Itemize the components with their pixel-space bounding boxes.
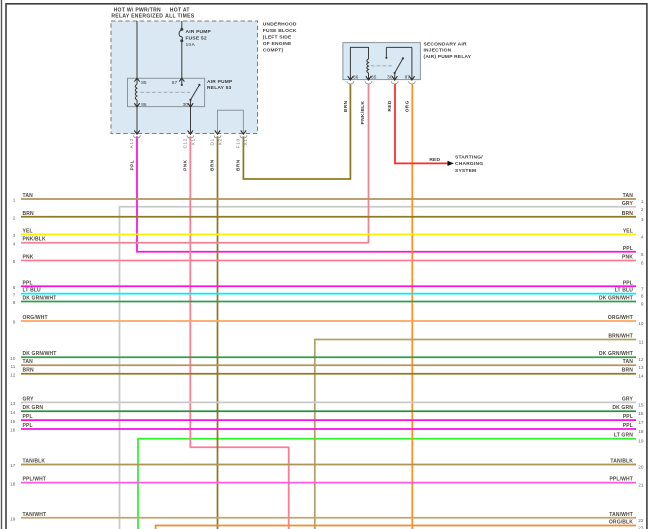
- svg-text:DK GRN: DK GRN: [612, 405, 633, 411]
- svg-text:11: 11: [639, 340, 644, 345]
- svg-text:GRY: GRY: [622, 201, 634, 207]
- svg-text:BRN: BRN: [343, 100, 348, 112]
- svg-text:F10: F10: [236, 138, 241, 148]
- svg-text:PPL: PPL: [623, 246, 633, 252]
- svg-text:AIR PUMP: AIR PUMP: [186, 29, 212, 35]
- svg-text:TAN/BLK: TAN/BLK: [23, 459, 46, 465]
- svg-text:TAN: TAN: [623, 359, 634, 365]
- svg-text:BRN: BRN: [23, 368, 35, 374]
- svg-text:AIR PUMP: AIR PUMP: [207, 79, 233, 85]
- svg-text:ORG/BLK: ORG/BLK: [609, 520, 633, 526]
- svg-text:14: 14: [638, 374, 644, 379]
- svg-text:X1: X1: [190, 138, 195, 145]
- svg-text:PPL: PPL: [623, 280, 633, 286]
- svg-text:20: 20: [638, 465, 644, 470]
- svg-text:7: 7: [13, 292, 16, 297]
- svg-text:BRN/WHT: BRN/WHT: [608, 334, 633, 340]
- svg-text:8: 8: [641, 294, 644, 299]
- svg-text:3: 3: [641, 217, 644, 222]
- svg-text:GRY: GRY: [622, 396, 634, 402]
- svg-text:16: 16: [10, 428, 16, 433]
- svg-text:12: 12: [10, 372, 16, 377]
- svg-text:DK GRN/WHT: DK GRN/WHT: [599, 351, 633, 357]
- svg-text:18: 18: [638, 429, 644, 434]
- svg-text:85: 85: [141, 80, 147, 85]
- svg-text:X1: X1: [243, 138, 248, 145]
- svg-text:COMPT): COMPT): [263, 47, 284, 53]
- svg-text:4: 4: [641, 234, 644, 239]
- svg-text:1: 1: [641, 199, 644, 204]
- svg-text:TAN/WHT: TAN/WHT: [609, 512, 633, 518]
- svg-text:BRN: BRN: [622, 368, 634, 374]
- svg-text:PNK: PNK: [23, 255, 34, 261]
- svg-text:PNK/BLK: PNK/BLK: [360, 100, 365, 124]
- svg-text:PPL: PPL: [129, 160, 135, 171]
- svg-text:10: 10: [10, 356, 16, 361]
- svg-text:RELAY ENERGIZED: RELAY ENERGIZED: [111, 14, 163, 20]
- svg-text:12: 12: [638, 357, 644, 362]
- svg-text:ORG: ORG: [404, 100, 409, 112]
- svg-text:(AIR) PUMP RELAY: (AIR) PUMP RELAY: [424, 54, 472, 60]
- svg-text:30: 30: [387, 74, 393, 79]
- svg-text:YEL: YEL: [23, 228, 33, 234]
- svg-text:8: 8: [13, 300, 16, 305]
- svg-text:15: 15: [638, 402, 644, 407]
- svg-text:17: 17: [10, 463, 16, 468]
- svg-text:BRN: BRN: [236, 159, 242, 171]
- svg-text:PPL/WHT: PPL/WHT: [23, 477, 47, 483]
- svg-text:11: 11: [11, 364, 16, 369]
- svg-text:17: 17: [638, 420, 644, 425]
- svg-text:1: 1: [13, 198, 16, 203]
- svg-text:YEL: YEL: [623, 228, 633, 234]
- svg-text:FUSE BLOCK: FUSE BLOCK: [263, 28, 297, 34]
- svg-text:9: 9: [13, 320, 16, 325]
- svg-text:19: 19: [638, 439, 644, 444]
- svg-text:PNK/BLK: PNK/BLK: [23, 237, 47, 243]
- svg-text:(LEFT SIDE: (LEFT SIDE: [263, 34, 292, 40]
- svg-text:LT GRN: LT GRN: [614, 433, 633, 439]
- svg-text:6: 6: [641, 261, 644, 266]
- svg-text:87: 87: [405, 74, 411, 79]
- svg-text:TAN: TAN: [623, 193, 634, 199]
- svg-text:23: 23: [638, 526, 644, 529]
- svg-text:X2: X2: [217, 138, 222, 145]
- svg-text:LT BLU: LT BLU: [615, 288, 634, 294]
- svg-text:21: 21: [638, 483, 644, 488]
- svg-text:FUSE 52: FUSE 52: [186, 35, 207, 41]
- svg-text:22: 22: [638, 518, 644, 523]
- svg-text:86: 86: [141, 102, 147, 107]
- svg-text:ORG/WHT: ORG/WHT: [608, 315, 633, 321]
- svg-text:10: 10: [638, 321, 644, 326]
- svg-text:13: 13: [10, 401, 16, 406]
- svg-text:TAN: TAN: [23, 359, 34, 365]
- svg-text:BRN: BRN: [23, 211, 35, 217]
- svg-text:ALL TIMES: ALL TIMES: [165, 14, 195, 20]
- svg-text:6: 6: [13, 285, 16, 290]
- svg-text:7: 7: [641, 286, 644, 291]
- svg-text:CHARGING: CHARGING: [455, 161, 483, 167]
- svg-text:PPL: PPL: [623, 414, 633, 420]
- svg-text:2: 2: [641, 207, 644, 212]
- svg-text:GRY: GRY: [23, 396, 35, 402]
- svg-text:C12: C12: [182, 138, 187, 149]
- svg-text:LT BLU: LT BLU: [23, 288, 42, 294]
- svg-text:30: 30: [183, 102, 189, 107]
- svg-text:D1: D1: [210, 138, 215, 145]
- svg-text:PPL: PPL: [23, 414, 33, 420]
- svg-text:PPL/WHT: PPL/WHT: [609, 477, 633, 483]
- svg-text:PNK: PNK: [622, 255, 633, 261]
- svg-text:PNK: PNK: [183, 159, 189, 170]
- svg-text:85: 85: [371, 74, 377, 79]
- svg-text:13: 13: [638, 365, 644, 370]
- svg-text:TAN/BLK: TAN/BLK: [610, 459, 633, 465]
- svg-text:87: 87: [172, 80, 178, 85]
- svg-text:DK GRN/WHT: DK GRN/WHT: [23, 351, 57, 357]
- svg-text:DK GRN: DK GRN: [23, 405, 44, 411]
- svg-text:3: 3: [13, 233, 16, 238]
- svg-text:10A: 10A: [186, 42, 196, 48]
- svg-text:STARTING/: STARTING/: [455, 154, 483, 160]
- svg-text:18: 18: [10, 481, 16, 486]
- svg-text:2: 2: [13, 216, 16, 221]
- svg-text:4: 4: [13, 241, 16, 246]
- svg-text:PPL: PPL: [23, 423, 33, 429]
- svg-text:A12: A12: [129, 138, 134, 148]
- svg-text:16: 16: [638, 411, 644, 416]
- svg-text:RED: RED: [429, 157, 440, 163]
- svg-text:19: 19: [10, 517, 16, 522]
- svg-text:5: 5: [641, 252, 644, 257]
- svg-text:9: 9: [641, 302, 644, 307]
- svg-text:INJECTION: INJECTION: [424, 48, 452, 54]
- svg-text:SECONDARY AIR: SECONDARY AIR: [424, 41, 467, 47]
- svg-text:TAN: TAN: [23, 193, 34, 199]
- svg-text:SYSTEM: SYSTEM: [455, 168, 476, 174]
- svg-text:RED: RED: [387, 100, 392, 111]
- svg-text:PPL: PPL: [23, 280, 33, 286]
- svg-text:DK GRN/WHT: DK GRN/WHT: [23, 296, 57, 302]
- svg-text:ORG/WHT: ORG/WHT: [23, 315, 48, 321]
- svg-text:5: 5: [13, 259, 16, 264]
- svg-text:86: 86: [353, 74, 359, 79]
- svg-text:14: 14: [10, 410, 16, 415]
- svg-text:OF ENGINE: OF ENGINE: [263, 41, 292, 47]
- svg-text:BRN: BRN: [622, 211, 634, 217]
- svg-text:DK GRN/WHT: DK GRN/WHT: [599, 296, 633, 302]
- svg-text:TAN/WHT: TAN/WHT: [23, 512, 47, 518]
- svg-text:BRN: BRN: [210, 159, 216, 171]
- svg-text:15: 15: [10, 419, 16, 424]
- svg-text:PPL: PPL: [623, 423, 633, 429]
- svg-text:RELAY 53: RELAY 53: [207, 85, 232, 91]
- svg-text:UNDERHOOD: UNDERHOOD: [263, 21, 297, 27]
